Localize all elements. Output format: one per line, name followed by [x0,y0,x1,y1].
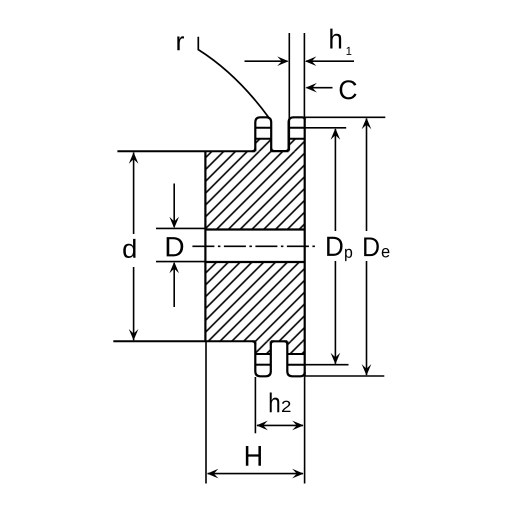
H label [246,446,261,466]
hub top edge in tooth gap [271,150,288,152]
bottom-left tooth root strip (hatched) [255,341,270,354]
top-right tooth root line [289,138,305,140]
De label [364,237,379,256]
h2 dimension line [257,424,303,426]
d dimension line upper segment [133,153,135,235]
bottom-right tooth root strip (hatched) [287,341,305,354]
hub bottom edge in tooth gap [271,340,288,342]
Dp label [327,237,342,256]
hub right edge [304,117,306,376]
bore top edge [205,228,304,230]
top-right tooth pitch line [289,127,305,129]
C label [340,80,357,99]
top-left tooth outline [255,117,271,151]
De dimension line upper segment [366,119,368,232]
D upper extension line [156,227,205,229]
tooth base fillets [252,148,289,345]
De dimension line lower segment [366,261,368,375]
d dimension line lower segment [133,267,135,340]
radius leader line [198,37,269,118]
top-left tooth root strip (hatched) [255,139,271,152]
h1 left extension line (tooth left edge extended up) [288,33,290,150]
radius leader r label [177,36,184,50]
D lower extension line [156,261,205,263]
hub top edge left of teeth [117,150,255,152]
d label [123,239,135,258]
h2 label [270,393,280,413]
top-right tooth outline [289,117,305,151]
bottom-right tooth pitch line [287,364,304,366]
bottom-right tooth outline [287,341,304,376]
h1 label [330,29,341,49]
hub left edge [204,151,206,341]
D label [167,237,184,256]
Dp bottom extension line [305,364,349,366]
bore bottom edge [205,261,304,263]
De top extension line [305,116,386,118]
centerline [189,245,317,247]
hub body upper section (hatched) [205,151,304,229]
De bottom extension line [305,375,385,377]
h1 dimension line right part [306,60,354,62]
h2 left extension line [254,377,256,433]
top-left tooth pitch line [255,127,271,129]
h2/H right extension line [304,376,306,483]
C arrow [307,87,333,89]
Dp top extension line [305,127,347,129]
top-left tooth root line [255,138,271,140]
hub body lower section (hatched) [205,262,304,341]
H dimension line [208,473,303,475]
D lower arrow [173,263,175,307]
bottom-left tooth pitch line [255,364,270,366]
h1 right extension line (tooth right edge extended up) [303,33,305,117]
hub bottom edge left of teeth [113,340,255,342]
bottom-left tooth root line [255,353,270,355]
bottom-left tooth outline [255,341,270,376]
h1 dimension line left part [245,60,288,62]
Dp dimension line upper segment [334,129,336,231]
D upper arrow [173,184,175,228]
H left extension line [205,341,207,483]
top-right tooth root strip (hatched) [289,139,305,152]
Dp dimension line lower segment [334,261,336,364]
bottom-right tooth root line [287,353,304,355]
